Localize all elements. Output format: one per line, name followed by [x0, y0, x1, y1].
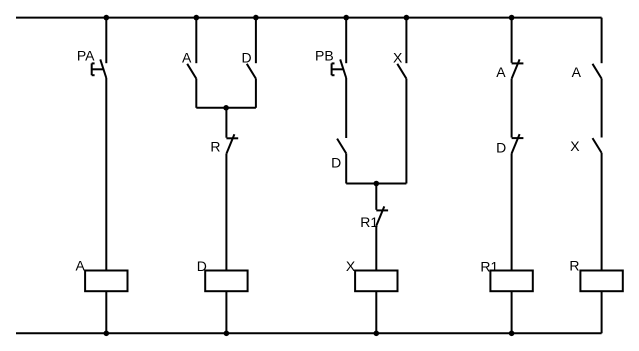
svg-text:D: D — [496, 139, 506, 155]
label contact D branch4 — [496, 139, 506, 155]
coil X — [355, 271, 397, 292]
node dot branch1 top — [104, 15, 110, 21]
coil A — [85, 271, 127, 292]
node dot branch3 join — [374, 181, 380, 187]
label coil X — [346, 258, 356, 274]
svg-text:R1: R1 — [480, 258, 498, 274]
label contact D branch3 — [331, 155, 341, 171]
wire branch4 to coil R1 — [511, 154, 513, 271]
contact D (NO, branch3) — [337, 139, 346, 154]
svg-text:R: R — [569, 258, 579, 274]
wire branch4 bottom — [511, 291, 513, 333]
node dot branch4 bottom — [509, 331, 515, 337]
node dot branch1 bottom — [104, 331, 110, 337]
label contact A branch4 — [496, 64, 506, 80]
contact R1 (NC, branch3) — [376, 206, 388, 225]
contact A (NC, branch4) — [512, 59, 524, 78]
wire branch2 A top — [195, 18, 197, 64]
wire branch4 top — [511, 18, 513, 63]
contact A (NO, branch2) — [187, 64, 196, 79]
contact X (NO, branch3) — [397, 64, 406, 79]
wire branch2 to contact R — [225, 108, 227, 138]
node dot branch2 A top — [194, 15, 200, 21]
label PA — [77, 47, 95, 63]
wire branch3 to contact R1 — [375, 184, 377, 210]
label coil R — [569, 258, 579, 274]
wire branch2 A bottom — [195, 79, 197, 108]
wire branch3 to coil X — [375, 226, 377, 271]
pushbutton PB (NC) — [332, 59, 347, 78]
wire branch3 bottom — [375, 291, 377, 333]
node dot branch2 join — [223, 105, 229, 111]
node dot branch3 right top — [404, 15, 410, 21]
wire branch5 to coil R — [601, 153, 603, 271]
label coil A — [75, 258, 85, 274]
wire branch2 parallel join — [196, 107, 256, 109]
label coil D — [197, 258, 207, 274]
node dot branch2 D top — [253, 15, 259, 21]
contact D (NO, branch2) — [247, 64, 256, 79]
node dot branch4 top — [509, 15, 515, 21]
label PB — [315, 47, 334, 63]
wire branch4 middle — [511, 79, 513, 138]
label contact A branch5 — [572, 64, 582, 80]
label coil R1 — [480, 258, 498, 274]
wire branch1 middle — [105, 78, 107, 271]
label contact D branch2 — [241, 50, 251, 66]
coil D — [205, 271, 247, 292]
svg-text:D: D — [197, 258, 207, 274]
label contact R1 — [360, 214, 378, 230]
svg-text:X: X — [393, 50, 403, 66]
wire branch3 right bottom — [405, 79, 407, 184]
svg-text:D: D — [331, 155, 341, 171]
coil R1 — [490, 271, 532, 292]
node dot branch2 bottom — [224, 331, 230, 337]
svg-text:X: X — [346, 258, 356, 274]
svg-text:PA: PA — [77, 47, 95, 63]
top power rail — [16, 17, 602, 19]
wire branch3 PB to D — [345, 78, 347, 138]
node dot branch3 left top — [343, 15, 349, 21]
bottom power rail — [16, 332, 602, 334]
contact R (NC, branch2) — [226, 134, 238, 153]
wire branch1 bottom — [105, 291, 107, 333]
wire branch3 parallel join — [346, 183, 406, 185]
svg-text:A: A — [182, 50, 192, 66]
svg-text:A: A — [572, 64, 582, 80]
wire branch5 middle — [601, 79, 603, 138]
svg-text:D: D — [241, 50, 251, 66]
wire branch1 top — [105, 18, 107, 64]
label contact A branch2 — [182, 50, 192, 66]
contact D (NC, branch4) — [512, 134, 524, 153]
svg-text:A: A — [75, 258, 85, 274]
svg-text:R: R — [210, 138, 220, 154]
wire branch2 D bottom — [255, 79, 257, 108]
node dot branch3 bottom — [374, 331, 380, 337]
svg-text:PB: PB — [315, 47, 334, 63]
contact A (NO, branch5) — [593, 64, 602, 79]
wire branch2 bottom — [225, 291, 227, 333]
svg-text:A: A — [496, 64, 506, 80]
wire branch3 right top — [405, 18, 407, 64]
label contact X branch5 — [570, 138, 580, 154]
wire branch3 left top — [345, 18, 347, 64]
wire branch2 D top — [255, 18, 257, 64]
wire branch2 to coil D — [225, 154, 227, 271]
contact X (NO, branch5) — [593, 138, 602, 153]
pushbutton PA (NC) — [92, 59, 107, 78]
wire branch3 left bottom — [345, 153, 347, 183]
label contact R — [210, 138, 220, 154]
wire branch5 top — [601, 18, 603, 64]
coil R — [580, 271, 622, 292]
svg-text:X: X — [570, 138, 580, 154]
label contact X branch3 — [393, 50, 403, 66]
wire branch5 bottom — [601, 291, 603, 333]
